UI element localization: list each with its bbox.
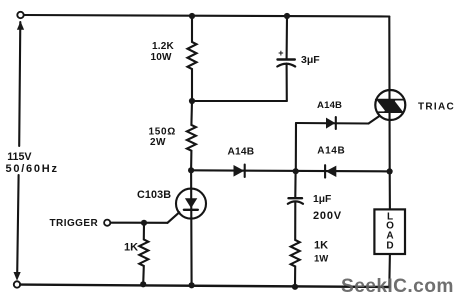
svg-text:115V: 115V bbox=[7, 151, 32, 163]
resistor R4 1K 1W bbox=[291, 203, 300, 287]
svg-text:+: + bbox=[278, 48, 283, 58]
svg-text:2W: 2W bbox=[150, 137, 166, 148]
triac triangles bbox=[376, 100, 404, 113]
svg-text:1μF: 1μF bbox=[313, 194, 331, 205]
diode D3 A14B upper bbox=[326, 117, 336, 129]
wire trigger bbox=[110, 222, 167, 224]
wire left rail upper bbox=[19, 22, 20, 146]
terminal bottom-left bbox=[14, 281, 20, 287]
node triac anode2 bbox=[387, 168, 393, 174]
capacitor C1 top plate bbox=[278, 58, 295, 60]
triac U2 circle bbox=[375, 90, 405, 120]
svg-text:1K: 1K bbox=[314, 239, 328, 251]
wire top rail bbox=[24, 15, 389, 17]
wire triac gate diagonal bbox=[369, 116, 380, 124]
capacitor C2 1uF branch top lead bbox=[294, 171, 296, 197]
svg-text:1.2K: 1.2K bbox=[152, 41, 175, 52]
wire vertical x=296 between diode rows bbox=[295, 123, 297, 171]
wire triac vertical bbox=[388, 17, 391, 172]
scr Q1 C103B circle bbox=[176, 189, 206, 219]
svg-text:50/60Hz: 50/60Hz bbox=[6, 163, 59, 175]
wire load to bottom rail bbox=[388, 254, 391, 287]
svg-text:1W: 1W bbox=[314, 254, 328, 265]
capacitor C1 3uF branch top lead bbox=[286, 16, 288, 59]
node R3 bottom bbox=[140, 281, 146, 287]
node top R1 bbox=[189, 13, 195, 19]
wire bottom rail bbox=[20, 285, 389, 287]
svg-text:TRIGGER: TRIGGER bbox=[50, 218, 99, 229]
wire mid row y=170.5 bbox=[191, 170, 390, 171]
node trigger junction bbox=[141, 220, 147, 226]
node R4 bottom bbox=[292, 284, 298, 290]
node top C1 bbox=[284, 13, 290, 19]
wire left rail lower bbox=[17, 175, 18, 274]
svg-text:A14B: A14B bbox=[317, 146, 345, 157]
svg-text:TRIAC: TRIAC bbox=[418, 102, 455, 113]
diode D1 A14B mid bbox=[234, 165, 245, 177]
svg-text:A14B: A14B bbox=[317, 100, 342, 111]
node R2 bottom bbox=[188, 167, 194, 173]
svg-text:150Ω: 150Ω bbox=[149, 127, 177, 138]
wire triac to load bbox=[389, 171, 391, 209]
node R1 bottom bbox=[189, 98, 195, 104]
scr cathode bar bbox=[184, 209, 198, 211]
capacitor C2 top plate bbox=[289, 197, 303, 199]
capacitor C2 bottom curved plate bbox=[288, 201, 303, 203]
resistor R1 1.2K 10W bbox=[188, 16, 197, 101]
wire gate row y=123 bbox=[296, 122, 369, 125]
node scr cathode bottom bbox=[189, 282, 195, 288]
capacitor C1 bottom lead bbox=[286, 64, 288, 102]
svg-text:D: D bbox=[386, 240, 393, 251]
node mid branch bbox=[293, 168, 299, 174]
svg-text:C103B: C103B bbox=[137, 189, 171, 201]
scr triangle bbox=[185, 198, 197, 208]
label LOAD letters bbox=[386, 211, 394, 251]
resistor R2 150ohm 2W bbox=[187, 101, 196, 170]
svg-text:200V: 200V bbox=[313, 210, 342, 222]
resistor R3 1K trigger bbox=[139, 223, 148, 284]
terminal trigger bbox=[104, 220, 110, 226]
diode D2 A14B lower (points left) bbox=[325, 165, 336, 177]
arrow up on left rail bbox=[17, 21, 24, 30]
wire scr gate diagonal bbox=[168, 212, 180, 223]
svg-text:A14B: A14B bbox=[228, 146, 255, 157]
svg-text:SeekIC.com: SeekIC.com bbox=[341, 276, 454, 297]
capacitor C1 bottom curved plate bbox=[277, 64, 295, 67]
wire junction row y=101 bbox=[192, 100, 287, 102]
arrow down on left rail bbox=[14, 272, 21, 281]
svg-text:3μF: 3μF bbox=[301, 54, 320, 66]
svg-text:1K: 1K bbox=[124, 241, 138, 253]
terminal top-left bbox=[17, 12, 23, 18]
wire scr vertical through bbox=[190, 170, 193, 285]
load box bbox=[374, 209, 405, 254]
svg-text:10W: 10W bbox=[151, 52, 173, 63]
